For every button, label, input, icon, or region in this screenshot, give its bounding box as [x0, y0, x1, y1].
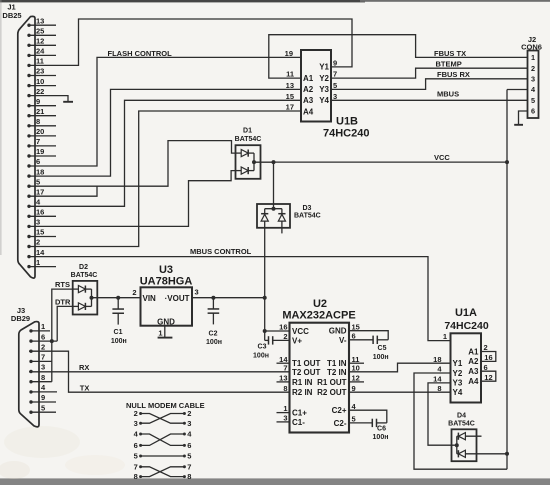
svg-text:V+: V+ — [292, 336, 302, 345]
svg-text:VCC: VCC — [434, 153, 450, 162]
svg-text:RTS: RTS — [55, 280, 70, 289]
net FBUS TX (U1B A1 / J2.1) — [269, 35, 528, 78]
svg-text:BAT54C: BAT54C — [294, 213, 321, 220]
svg-text:5: 5 — [333, 81, 337, 90]
svg-text:BAT54C: BAT54C — [235, 136, 262, 143]
svg-text:MBUS CONTROL: MBUS CONTROL — [190, 247, 252, 256]
svg-text:RX: RX — [79, 363, 89, 372]
buffer U1B 74HC240 — [285, 49, 370, 139]
junction D1/D3 node — [272, 160, 276, 164]
wire VCC rail vertical (J2.4 down to D4) — [506, 90, 508, 470]
svg-text:6: 6 — [36, 157, 40, 166]
svg-text:2: 2 — [283, 332, 287, 341]
svg-text:1: 1 — [41, 322, 45, 331]
wire to U2 pin16 — [265, 330, 290, 332]
wire VCC node down to D3 — [273, 162, 275, 209]
J1 pin 17 — [27, 187, 44, 198]
wire U1A A1-A2 loop — [481, 352, 496, 362]
wire U1A Y3 to D4 common — [428, 383, 457, 445]
junction D2 common cathode — [90, 296, 94, 300]
capacitor C5 100n (GND to V-) — [349, 331, 389, 361]
svg-text:1: 1 — [36, 258, 40, 267]
svg-text:6: 6 — [531, 107, 535, 116]
svg-text:8: 8 — [187, 472, 191, 481]
svg-text:5: 5 — [352, 415, 356, 424]
svg-text:2: 2 — [36, 238, 40, 247]
svg-text:D1: D1 — [243, 127, 252, 134]
svg-text:Y4: Y4 — [453, 388, 463, 397]
J1 pin 18 — [27, 167, 44, 178]
svg-text:R2 IN: R2 IN — [292, 388, 313, 397]
svg-text:20: 20 — [36, 127, 44, 136]
ic U2 MAX232ACPE — [279, 298, 360, 433]
svg-text:19: 19 — [36, 147, 44, 156]
J1 pin 11 — [27, 57, 44, 68]
J1 pin 15 — [27, 228, 56, 239]
svg-text:14: 14 — [36, 248, 45, 257]
net FLASH CONTROL (J1.6 to U1B pin19) — [29, 49, 301, 166]
junction RTS at J3.6 — [50, 339, 54, 343]
J1 pin 3 — [27, 218, 40, 228]
svg-text:FBUS TX: FBUS TX — [434, 49, 466, 58]
svg-text:74HC240: 74HC240 — [444, 320, 489, 332]
J1 pin 19 — [27, 147, 56, 158]
svg-text:100н: 100н — [373, 434, 389, 441]
svg-text:GND: GND — [329, 327, 347, 336]
net MBUS (U1B Y4 to J2.5) — [331, 89, 528, 100]
svg-text:VCC: VCC — [292, 327, 309, 336]
svg-text:8: 8 — [41, 373, 45, 382]
svg-text:Y2: Y2 — [319, 74, 329, 83]
wire D1 out to VCC node — [254, 161, 274, 163]
svg-text:T2 OUT: T2 OUT — [292, 368, 321, 377]
svg-text:15: 15 — [286, 92, 294, 101]
svg-text:9: 9 — [41, 393, 45, 402]
svg-text:D4: D4 — [457, 413, 466, 420]
capacitor C2 100n — [206, 296, 222, 347]
svg-text:VIN: VIN — [143, 294, 157, 303]
net FBUS RX (U1B Y3 to J2.3) — [331, 70, 528, 89]
J1 pin 9 — [27, 97, 56, 108]
svg-text:DB25: DB25 — [2, 11, 21, 20]
svg-text:3: 3 — [134, 419, 138, 428]
svg-text:V-: V- — [339, 336, 347, 345]
svg-text:7: 7 — [283, 363, 287, 372]
capacitor C3 100n (to V+) — [253, 336, 289, 359]
svg-text:5: 5 — [36, 177, 40, 186]
junction VOUT/D3 node — [263, 296, 267, 300]
svg-text:1: 1 — [443, 332, 447, 341]
svg-text:11: 11 — [286, 70, 294, 79]
svg-text:DTR: DTR — [55, 297, 71, 306]
net RX (J3.3 to U2 T2 OUT) — [29, 363, 290, 372]
svg-text:13: 13 — [36, 16, 44, 25]
wire J1.5 to D1 top anode — [29, 141, 236, 187]
svg-text:11: 11 — [36, 57, 44, 66]
svg-text:10: 10 — [352, 363, 360, 372]
svg-text:T2 IN: T2 IN — [327, 368, 347, 377]
svg-text:8: 8 — [437, 384, 441, 393]
svg-text:C2: C2 — [209, 331, 218, 338]
svg-text:U1A: U1A — [455, 307, 477, 319]
svg-text:R1 OUT: R1 OUT — [317, 378, 346, 387]
connector J3 (DB29) — [11, 306, 39, 427]
svg-text:A3: A3 — [468, 367, 479, 376]
svg-text:DB29: DB29 — [11, 314, 30, 323]
svg-text:12: 12 — [36, 37, 44, 46]
J3 pin 7 — [29, 353, 52, 363]
svg-text:C3: C3 — [258, 344, 267, 351]
wire J1.18 to U1B A2 — [29, 89, 301, 176]
J3 pin 8 — [29, 373, 52, 384]
svg-text:9: 9 — [333, 59, 337, 68]
svg-text:2: 2 — [531, 64, 535, 73]
svg-text:C6: C6 — [377, 425, 386, 432]
junction D4/rail — [505, 452, 509, 456]
wire U1A Y2 to bottom rail — [414, 373, 507, 469]
svg-text:3: 3 — [283, 414, 287, 423]
svg-text:6: 6 — [187, 441, 191, 450]
svg-text:R2 OUT: R2 OUT — [317, 388, 346, 397]
svg-text:3: 3 — [195, 288, 199, 297]
svg-text:6: 6 — [484, 363, 488, 372]
svg-text:Y2: Y2 — [453, 369, 463, 378]
svg-text:13: 13 — [286, 81, 294, 90]
junction D3 common — [272, 207, 276, 211]
svg-text:FLASH CONTROL: FLASH CONTROL — [108, 49, 173, 58]
svg-text:10: 10 — [36, 77, 44, 86]
svg-text:FBUS RX: FBUS RX — [437, 70, 470, 79]
svg-text:Y1: Y1 — [319, 63, 329, 72]
svg-text:C2-: C2- — [334, 419, 347, 428]
J1 pin 6 — [27, 157, 40, 168]
diode D3 BAT54C — [257, 204, 321, 228]
svg-text:18: 18 — [433, 355, 441, 364]
net DTR (D2 to J3 pin6 line) — [55, 297, 73, 341]
svg-text:C1: C1 — [114, 329, 123, 336]
regulator U3 UA78HGA — [132, 264, 198, 327]
J3 pin 6 — [29, 332, 57, 343]
svg-text:2: 2 — [41, 342, 45, 351]
svg-text:3: 3 — [36, 218, 40, 227]
net TX (J3.2 to U2 R2 IN) — [29, 351, 290, 392]
svg-text:16: 16 — [36, 208, 44, 217]
svg-text:2: 2 — [132, 288, 136, 297]
svg-text:7: 7 — [333, 70, 337, 79]
capacitor C1 100n — [111, 296, 127, 346]
svg-text:5: 5 — [187, 452, 191, 461]
svg-text:2: 2 — [134, 409, 138, 418]
svg-text:C1+: C1+ — [292, 409, 307, 418]
J3 pin 5 — [29, 403, 56, 414]
svg-text:100н: 100н — [111, 338, 127, 345]
svg-text:·VOUT: ·VOUT — [165, 294, 190, 303]
svg-text:A4: A4 — [303, 107, 314, 116]
net VCC (D1 output to rail) — [254, 153, 507, 162]
diode D4 BAT54C — [448, 413, 476, 461]
svg-text:1: 1 — [158, 328, 162, 337]
svg-text:100н: 100н — [206, 339, 222, 346]
svg-text:3: 3 — [41, 363, 45, 372]
svg-text:A3: A3 — [303, 96, 314, 105]
net BTEMP (U1B Y2 to J2.2) — [331, 60, 528, 79]
junction D1 common cathode — [252, 160, 256, 164]
J1 pin 8 — [27, 117, 56, 128]
J1 pin 5 — [27, 177, 40, 188]
J1 pin 12 — [27, 37, 56, 48]
svg-text:1: 1 — [283, 404, 287, 413]
svg-text:3: 3 — [187, 419, 191, 428]
svg-text:Y3: Y3 — [453, 379, 463, 388]
svg-text:6: 6 — [352, 331, 356, 340]
svg-text:Y1: Y1 — [453, 359, 463, 368]
wire U2 R1 OUT stub — [349, 381, 364, 383]
wire D3 left anode down to VCC/U2 node — [264, 221, 266, 298]
J1 pin 24 — [27, 47, 56, 58]
svg-text:5: 5 — [41, 403, 45, 412]
svg-text:D3: D3 — [303, 205, 312, 212]
J3 pin 3 — [29, 363, 45, 373]
svg-text:C1-: C1- — [292, 418, 305, 427]
connector J1 (DB25) — [2, 3, 35, 279]
svg-text:A4: A4 — [468, 377, 479, 386]
net RTS (D2 to J3 pins 6/7/8) — [52, 280, 73, 382]
wire U2 T1 OUT stub — [277, 362, 290, 364]
svg-text:100н: 100н — [253, 353, 269, 360]
wire U2 R1 IN stub — [277, 381, 290, 383]
wire U2 C1- stub — [277, 421, 290, 423]
J1 pin 21 — [27, 107, 56, 118]
wire U2 C1+ stub — [277, 412, 290, 414]
svg-text:Y3: Y3 — [319, 85, 329, 94]
svg-text:17: 17 — [36, 187, 44, 196]
svg-text:3: 3 — [333, 92, 337, 101]
svg-text:5: 5 — [134, 452, 138, 461]
svg-text:GND: GND — [157, 318, 175, 327]
J3 pin 1 — [29, 322, 50, 332]
svg-text:6: 6 — [41, 332, 45, 341]
svg-text:16: 16 — [279, 323, 287, 332]
svg-text:R1 IN: R1 IN — [292, 378, 313, 387]
svg-text:13: 13 — [279, 374, 287, 383]
wire J1.11 to U1B Y1 (top route) — [29, 19, 352, 67]
wire U3 VOUT to VCC node — [192, 297, 265, 299]
svg-text:1: 1 — [531, 53, 535, 62]
svg-text:8: 8 — [134, 472, 138, 481]
svg-text:5: 5 — [531, 96, 535, 105]
svg-text:A2: A2 — [303, 85, 314, 94]
connector J2 CON6 — [521, 35, 542, 118]
svg-text:23: 23 — [36, 67, 44, 76]
svg-text:100н: 100н — [373, 354, 389, 361]
J1 pin 22 — [27, 87, 44, 98]
ground at U3 pin 1 — [158, 326, 173, 338]
junction U2 VCC node — [263, 329, 267, 333]
svg-text:22: 22 — [36, 87, 44, 96]
svg-text:7: 7 — [134, 462, 138, 471]
J3 pin 9 — [29, 393, 56, 403]
J1 pin 4 — [27, 198, 41, 209]
svg-text:BAT54C: BAT54C — [71, 272, 98, 279]
J1 pin 25 — [27, 27, 56, 38]
svg-text:U2: U2 — [313, 298, 327, 310]
J3 pin 2 — [29, 342, 45, 353]
wire D2 out to U3 VIN — [92, 297, 141, 299]
svg-text:15: 15 — [352, 322, 360, 331]
J1 pin 10 — [27, 77, 56, 88]
svg-text:BAT54C: BAT54C — [448, 421, 475, 428]
wire U1A A3-A4 loop — [481, 371, 496, 381]
net MBUS CONTROL (J1.14 to U1A pin1) — [29, 247, 451, 340]
svg-text:D2: D2 — [79, 264, 88, 271]
svg-text:MBUS: MBUS — [437, 89, 459, 98]
wire U2 T1 IN stub — [349, 362, 364, 364]
wire U2 T2 IN to U1A Y1 — [349, 363, 451, 372]
svg-text:A2: A2 — [468, 357, 479, 366]
J1 pin 13 — [27, 16, 56, 27]
wire J1.4 to U1B A3 — [29, 100, 301, 206]
J1 pin 7 — [27, 137, 56, 147]
diode D2 BAT54C — [71, 264, 98, 315]
wire D4 bottom diode to rail — [465, 453, 507, 455]
svg-text:12: 12 — [352, 374, 360, 383]
wire J2.4 stub to VCC rail — [507, 89, 528, 91]
wire J1.3 to D1 bottom anode — [29, 171, 236, 227]
capacitor C6 100n (C2+ to C2-) — [349, 410, 388, 441]
svg-text:A1: A1 — [303, 74, 314, 83]
svg-text:21: 21 — [36, 107, 44, 116]
ground at J2.6 — [514, 111, 527, 125]
svg-text:7: 7 — [187, 462, 191, 471]
J1 pin 1 — [27, 258, 56, 269]
wire VCC node down to U2 VCC — [264, 298, 266, 341]
svg-text:8: 8 — [283, 384, 287, 393]
ground at J1.22 — [29, 96, 73, 102]
svg-text:UA78HGA: UA78HGA — [140, 275, 193, 287]
svg-text:2: 2 — [484, 343, 488, 352]
diode D1 BAT54C — [235, 127, 262, 178]
wire U2 R2 OUT to U1A Y4 — [349, 391, 451, 393]
svg-text:18: 18 — [36, 167, 44, 176]
junction D4 common — [455, 443, 459, 447]
J1 pin 2 — [27, 238, 40, 249]
wire D4 top diode stub — [465, 435, 481, 437]
junction VCC/rail — [505, 160, 509, 164]
svg-text:9: 9 — [352, 384, 356, 393]
svg-text:U3: U3 — [159, 264, 173, 276]
svg-text:7: 7 — [41, 353, 45, 362]
J1 pin 23 — [27, 67, 56, 78]
svg-text:Y4: Y4 — [319, 96, 329, 105]
J1 pin 14 — [27, 248, 45, 259]
svg-text:CON6: CON6 — [521, 42, 542, 51]
svg-text:C5: C5 — [378, 345, 387, 352]
svg-text:2: 2 — [187, 409, 191, 418]
svg-text:24: 24 — [36, 47, 45, 56]
null modem cable diagram — [126, 401, 205, 481]
svg-text:19: 19 — [285, 49, 293, 58]
svg-text:MAX232ACPE: MAX232ACPE — [282, 310, 355, 322]
J1 pin 20 — [27, 127, 56, 137]
svg-text:C2+: C2+ — [332, 406, 347, 415]
svg-text:U1B: U1B — [336, 116, 358, 128]
J1 pin 16 — [27, 208, 56, 219]
svg-text:8: 8 — [36, 117, 40, 126]
svg-text:9: 9 — [36, 97, 40, 106]
svg-text:74HC240: 74HC240 — [323, 128, 369, 140]
svg-text:6: 6 — [134, 441, 138, 450]
svg-text:TX: TX — [80, 383, 90, 392]
svg-text:A1: A1 — [468, 347, 479, 356]
svg-text:17: 17 — [286, 103, 294, 112]
svg-text:15: 15 — [36, 228, 44, 237]
svg-text:25: 25 — [36, 27, 44, 36]
wire J1.17 joins J1.5 — [29, 186, 97, 196]
wire D3 right anode stub — [281, 221, 283, 233]
J3 pin 4 — [29, 383, 57, 393]
wire J1.2 to U1B A4 — [29, 111, 301, 247]
svg-text:3: 3 — [531, 74, 535, 83]
buffer U1A 74HC240 — [433, 307, 492, 402]
svg-text:7: 7 — [36, 137, 40, 146]
svg-text:14: 14 — [433, 375, 442, 384]
svg-text:BTEMP: BTEMP — [436, 60, 462, 69]
